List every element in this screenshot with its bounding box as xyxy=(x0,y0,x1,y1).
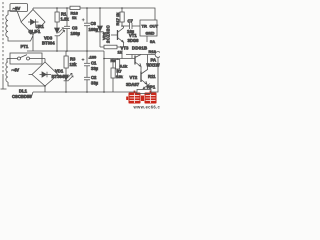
vertical wire x122 xyxy=(121,47,123,59)
svg-text:13k: 13k xyxy=(116,74,123,79)
zener diode VD2 xyxy=(97,8,104,47)
svg-text:BT304: BT304 xyxy=(42,41,55,46)
capacitor C6 xyxy=(82,8,90,51)
capacitor C2 xyxy=(84,77,90,92)
LED VD3 xyxy=(55,28,65,51)
capacitor C7 xyxy=(122,23,140,29)
svg-text:GND: GND xyxy=(146,31,155,36)
label ~5V xyxy=(10,4,28,12)
capacitor C1 xyxy=(82,51,90,77)
svg-text:C7: C7 xyxy=(128,19,134,24)
svg-text:C6: C6 xyxy=(91,21,97,26)
resistor R8 on wire xyxy=(100,45,122,49)
svg-text:PT1: PT1 xyxy=(21,44,29,49)
resistor R7 xyxy=(111,59,115,93)
resistor R16 on top rail xyxy=(70,6,80,9)
svg-text:33µ: 33µ xyxy=(91,81,99,86)
svg-text:VT3: VT3 xyxy=(121,46,129,51)
bridge rectifier UR1 xyxy=(21,10,45,35)
svg-text:R3: R3 xyxy=(70,57,76,62)
transistor VT1 xyxy=(111,26,124,47)
svg-text:QL5-1: QL5-1 xyxy=(29,29,42,34)
resistor R9 xyxy=(116,59,120,78)
IC ground stub xyxy=(146,36,148,42)
transistor VT3 xyxy=(135,55,141,72)
svg-text:3DA87: 3DA87 xyxy=(126,82,140,87)
potentiometer RP1 xyxy=(137,84,151,94)
vertical wire x104 xyxy=(103,51,105,92)
top rail wire xyxy=(33,8,155,20)
meter drop wire xyxy=(157,57,159,89)
resistor R17 xyxy=(120,8,124,26)
resistor R1 xyxy=(55,8,59,30)
svg-text:VD1: VD1 xyxy=(55,69,64,74)
mid rail wire xyxy=(27,50,104,52)
svg-text:R11: R11 xyxy=(148,74,156,79)
svg-text:C3: C3 xyxy=(72,26,78,31)
svg-text:1k: 1k xyxy=(72,15,77,20)
wire VT3 base feed xyxy=(104,58,135,60)
svg-text:BT304: BT304 xyxy=(52,74,65,79)
svg-text:VT2: VT2 xyxy=(130,75,138,80)
resistor R3 xyxy=(64,51,68,75)
svg-text:5A: 5A xyxy=(150,39,155,44)
capacitor C3 xyxy=(64,8,70,51)
svg-text:2CZ52C: 2CZ52C xyxy=(106,25,111,43)
svg-text:DL1: DL1 xyxy=(19,89,28,94)
bridge rectifier DL1 xyxy=(29,62,59,92)
transformer core dashed line xyxy=(1,2,7,89)
IC U1 box xyxy=(140,20,157,36)
switch PT1 box xyxy=(7,53,45,64)
svg-text:www.ec66.com: www.ec66.com xyxy=(133,105,161,110)
wire to meter xyxy=(126,54,155,56)
svg-text:OUT: OUT xyxy=(150,24,159,29)
meter PA xyxy=(155,52,161,58)
svg-text:100µ: 100µ xyxy=(71,31,81,36)
svg-text:C1: C1 xyxy=(91,61,97,66)
red watermark xyxy=(126,91,156,104)
junction dots xyxy=(44,7,123,93)
transformer T1 secondary winding 2 (~4V) xyxy=(6,59,45,87)
svg-text:33µ: 33µ xyxy=(91,66,99,71)
svg-text:TR: TR xyxy=(142,24,147,29)
svg-text:10µ: 10µ xyxy=(127,29,135,34)
svg-text:C2: C2 xyxy=(91,75,97,80)
transistor VT2 xyxy=(141,55,148,89)
bottom rail wire xyxy=(32,89,159,97)
svg-text:R17 1k: R17 1k xyxy=(115,12,120,26)
svg-text:CSCBD55: CSCBD55 xyxy=(12,94,32,99)
transformer T1 secondary winding 1 (~5V) xyxy=(6,15,8,37)
wire winding1 top to bridge xyxy=(8,11,21,22)
LED VD1 xyxy=(64,73,73,92)
svg-text:RP1: RP1 xyxy=(147,85,156,90)
svg-text:~4V: ~4V xyxy=(12,68,20,73)
svg-text:.180: .180 xyxy=(89,55,98,60)
svg-text:1.2k: 1.2k xyxy=(61,17,70,22)
svg-text:3DG8: 3DG8 xyxy=(128,38,140,43)
svg-text:R9: R9 xyxy=(111,58,117,63)
svg-text:DD01B: DD01B xyxy=(132,46,147,51)
svg-text:12k: 12k xyxy=(70,62,78,67)
svg-text:~5V: ~5V xyxy=(13,6,21,11)
bridge1 bottom stub xyxy=(32,35,34,52)
wire winding1 bottom to bridge xyxy=(8,36,33,42)
svg-text:R7: R7 xyxy=(117,69,123,74)
